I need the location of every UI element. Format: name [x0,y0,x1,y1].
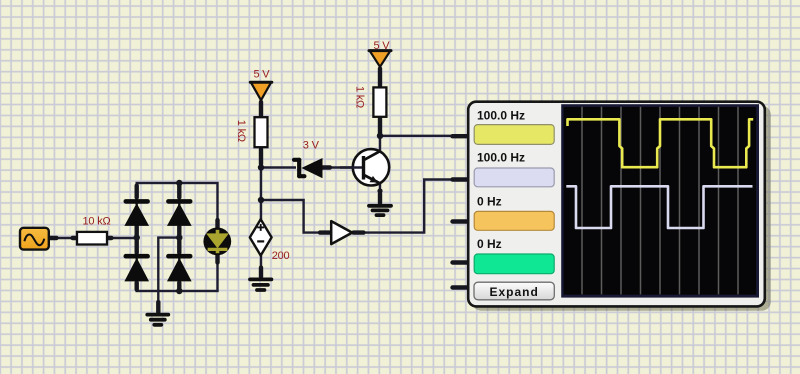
svg-text:0 Hz: 0 Hz [477,194,502,208]
svg-text:100.0 Hz: 100.0 Hz [477,151,525,165]
svg-text:3 V: 3 V [303,140,320,152]
svg-text:1 kΩ: 1 kΩ [354,86,366,108]
svg-text:10 kΩ: 10 kΩ [83,216,111,228]
svg-text:5 V: 5 V [374,40,391,52]
svg-text:1 kΩ: 1 kΩ [235,120,247,142]
svg-text:100.0 Hz: 100.0 Hz [477,108,525,122]
svg-text:200: 200 [272,250,290,262]
svg-text:Expand: Expand [490,285,539,299]
svg-text:5 V: 5 V [254,69,271,81]
svg-text:0 Hz: 0 Hz [477,237,502,251]
